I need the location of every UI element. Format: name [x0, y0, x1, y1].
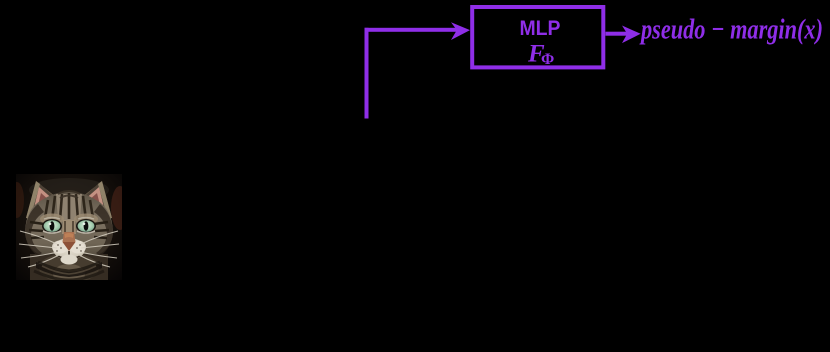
- svg-text:Φ: Φ: [541, 51, 554, 68]
- svg-text:pseudo − margin(x): pseudo − margin(x): [639, 14, 823, 46]
- svg-text:MLP: MLP: [520, 16, 561, 40]
